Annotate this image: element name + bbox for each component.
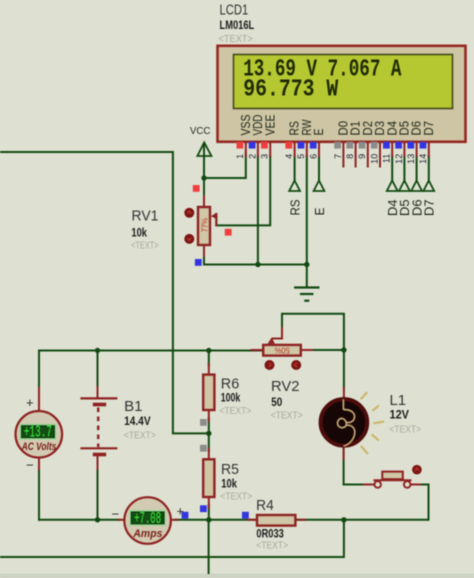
- pin 11 D4: [382, 121, 400, 163]
- svg-text:+13.7: +13.7: [24, 423, 52, 442]
- pin stub lamp bottom: [343, 446, 345, 459]
- wire pin4 RS to terminal: [294, 156, 296, 181]
- svg-text:E: E: [312, 207, 327, 215]
- svg-text:AC Volts: AC Volts: [21, 441, 56, 453]
- pin 10 D3: [369, 121, 387, 168]
- blue square R4 left node: [242, 512, 249, 519]
- wire pin14 D7 to terminal: [428, 156, 430, 181]
- wire VCC drop to RV1: [203, 144, 205, 208]
- pin 6 E: [308, 129, 326, 159]
- pin stub voltmeter bottom: [38, 458, 40, 470]
- pin stub voltmeter top: [38, 388, 40, 412]
- svg-text:Amps: Amps: [132, 528, 162, 540]
- RV2 potentiometer: [263, 338, 301, 371]
- svg-text:<TEXT>: <TEXT>: [389, 424, 421, 435]
- svg-text:L1: L1: [390, 393, 407, 409]
- pin stub R4 left: [248, 519, 257, 521]
- pin stub RV1 bottom: [203, 245, 205, 256]
- wire top rail voltmeter to RV2: [39, 350, 263, 352]
- pin 9 D2: [357, 121, 375, 168]
- node B1 bottom junction: [95, 517, 100, 522]
- wire pin1 VSS to VCC node: [204, 153, 246, 178]
- wire bottom row left: [39, 519, 120, 521]
- svg-text:<TEXT>: <TEXT>: [219, 406, 251, 417]
- node R5 bottom junction: [206, 517, 211, 522]
- svg-text:<TEXT>: <TEXT>: [131, 240, 159, 251]
- pin stub RV2 right: [301, 349, 312, 351]
- R6 resistor: [203, 375, 214, 410]
- svg-text:VEE: VEE: [263, 115, 277, 136]
- svg-text:RV2: RV2: [271, 379, 300, 395]
- wire R4 to junction: [295, 519, 344, 521]
- svg-text:50: 50: [271, 395, 282, 409]
- wire switch right: [418, 484, 429, 486]
- node VCC/pin1/RV1 junction: [201, 175, 206, 180]
- state squares: [182, 185, 249, 519]
- svg-text:D7: D7: [422, 200, 437, 217]
- gray square R5 top node: [200, 445, 207, 452]
- pin stub R6 top: [208, 364, 210, 375]
- node switch/bottom rail junction: [341, 517, 346, 522]
- pin 13 D6: [406, 121, 424, 164]
- node B1 top rail junction: [95, 348, 100, 353]
- ground: [294, 288, 320, 301]
- svg-text:LCD1: LCD1: [220, 3, 249, 19]
- wire pin2 VDD down: [257, 156, 259, 265]
- lamp light rays: [361, 392, 384, 454]
- pin stub B1 bottom: [97, 456, 99, 470]
- wire R5 top: [208, 433, 210, 451]
- pin stub R5 top: [208, 449, 210, 460]
- pin 7 D0: [333, 121, 351, 168]
- svg-text:13: 13: [406, 154, 416, 164]
- wire B1 bottom: [97, 468, 99, 520]
- node R6/R5 junction: [206, 431, 211, 436]
- svg-text:50%: 50%: [275, 345, 290, 354]
- wire voltmeter bottom: [38, 468, 40, 520]
- svg-text:5: 5: [296, 154, 306, 159]
- pin stub R4 right: [295, 519, 305, 521]
- svg-text:1: 1: [235, 154, 245, 159]
- pin stub R6 bottom: [208, 410, 210, 421]
- R4 resistor: [257, 515, 295, 526]
- pin 12 D5: [394, 121, 412, 164]
- RED PIN STUBS: [39, 196, 420, 520]
- pin 14 D7: [418, 121, 436, 164]
- svg-text:100k: 100k: [221, 391, 241, 405]
- blue square ammeter plus node: [182, 512, 189, 519]
- svg-text:B1: B1: [124, 399, 143, 415]
- red square RV1 top node: [193, 185, 200, 192]
- filament: [342, 399, 344, 410]
- svg-text:11: 11: [382, 154, 392, 163]
- pin stub RV1 wiper tail: [215, 214, 217, 225]
- wire R6 top: [208, 351, 210, 367]
- svg-text:96.773 W: 96.773 W: [243, 77, 339, 104]
- pin 8 D1: [345, 121, 363, 168]
- wire left rail to R6/R5 junction: [0, 152, 209, 433]
- svg-text:2: 2: [247, 154, 257, 159]
- terminal RS: [287, 181, 302, 216]
- svg-text:<TEXT>: <TEXT>: [271, 411, 303, 422]
- wire lamp top: [343, 350, 345, 390]
- pin 2 VDD: [247, 115, 265, 159]
- node RV2 right junction: [341, 347, 346, 352]
- svg-text:12: 12: [394, 154, 404, 164]
- pin stub switch right: [411, 484, 420, 486]
- wire RV1 bottom / ground rail: [204, 245, 307, 265]
- svg-text:10: 10: [369, 154, 379, 164]
- wire amps to R4: [175, 519, 257, 521]
- pin stub ammeter right: [171, 519, 178, 521]
- blue square R5 bottom node: [200, 505, 207, 512]
- pin stub ammeter left: [119, 519, 126, 521]
- wire pin3 VEE to RV1 wiper: [216, 156, 270, 225]
- wire RV2 wiper loop: [282, 314, 344, 350]
- R5 resistor: [203, 459, 214, 497]
- svg-text:3: 3: [260, 154, 270, 159]
- wire pin6 E to terminal: [318, 156, 320, 181]
- ammeter Amps: [124, 497, 171, 544]
- switch (push button): [374, 465, 422, 488]
- wire lamp bottom to switch: [344, 446, 366, 485]
- svg-text:+7.08: +7.08: [134, 509, 161, 528]
- pin stub lamp top: [343, 388, 345, 399]
- VCC power symbol: [197, 142, 211, 156]
- svg-text:8: 8: [345, 154, 355, 159]
- wire B1 top: [97, 351, 99, 391]
- node pin5 ground rail junction: [304, 262, 309, 267]
- LCD1 screen: [234, 55, 453, 109]
- terminal D7: [422, 181, 437, 217]
- wire R5 column off bottom: [208, 520, 210, 573]
- terminal E: [312, 181, 327, 216]
- RV1 potentiometer: [184, 207, 216, 245]
- pin 5 RW: [296, 119, 314, 158]
- wire switch loop: [344, 485, 429, 520]
- svg-text:9: 9: [357, 154, 367, 159]
- svg-text:6: 6: [308, 154, 318, 159]
- wire R5 bottom: [208, 505, 210, 520]
- terminal D4: [385, 181, 400, 217]
- pin stub RV2 left: [252, 349, 264, 351]
- pin stub RV1 top: [203, 196, 205, 207]
- pin 1 VSS: [235, 115, 253, 159]
- svg-text:+: +: [26, 395, 34, 410]
- node R6 top rail junction: [206, 348, 211, 353]
- wire pin5 RW down to ground: [306, 156, 308, 288]
- svg-text:VCC: VCC: [190, 126, 211, 137]
- bottom window band: [0, 574, 474, 578]
- pin 3 VEE: [260, 115, 278, 159]
- svg-text:LM016L: LM016L: [220, 18, 255, 32]
- svg-text:<TEXT>: <TEXT>: [256, 541, 288, 552]
- svg-text:<TEXT>: <TEXT>: [124, 431, 156, 442]
- B1 battery: [80, 398, 117, 454]
- pin stub B1 top: [97, 387, 99, 398]
- pin 4 RS: [284, 121, 302, 159]
- svg-text:<TEXT>: <TEXT>: [220, 491, 252, 502]
- node pin2 ground rail junction: [255, 262, 260, 267]
- wire bottom rail: [0, 520, 344, 557]
- svg-text:14: 14: [418, 154, 428, 164]
- svg-text:−: −: [112, 506, 120, 521]
- voltmeter AC Volts: [16, 411, 63, 458]
- svg-text:RS: RS: [287, 199, 302, 215]
- wire pin13 D6 to terminal: [416, 156, 418, 181]
- L1 lamp: [321, 392, 385, 454]
- svg-text:E: E: [312, 129, 326, 136]
- svg-text:−: −: [26, 457, 34, 472]
- wire RV2 right to lamp column: [301, 349, 344, 351]
- pin stub switch left: [364, 484, 374, 486]
- svg-text:12V: 12V: [390, 408, 410, 422]
- svg-text:D7: D7: [422, 121, 436, 136]
- svg-text:10k: 10k: [221, 477, 237, 491]
- terminal D5: [397, 181, 412, 217]
- wire voltmeter top: [38, 351, 40, 393]
- wire R6 bottom: [208, 418, 210, 433]
- gray square R6 bottom node: [200, 419, 207, 426]
- svg-text:10k: 10k: [131, 226, 147, 240]
- terminal D6: [409, 181, 424, 217]
- svg-text:<TEXT>: <TEXT>: [219, 34, 254, 45]
- LCD1 body: [218, 46, 466, 142]
- svg-text:4: 4: [284, 154, 294, 159]
- svg-text:77%: 77%: [200, 218, 209, 233]
- svg-text:14.4V: 14.4V: [124, 414, 151, 428]
- svg-text:7: 7: [333, 154, 343, 159]
- wire pin11 D4 to terminal: [391, 156, 393, 181]
- svg-text:RV1: RV1: [132, 208, 159, 224]
- pin stub RV2 wiper: [273, 328, 283, 339]
- blue square RV1 bottom node: [195, 259, 202, 266]
- pin stub R5 bottom: [208, 497, 210, 508]
- red square RV1 wiper node: [225, 229, 232, 236]
- LCD pins group: [235, 115, 436, 168]
- svg-text:0R033: 0R033: [256, 527, 284, 541]
- wire pin12 D5 to terminal: [403, 156, 405, 181]
- svg-text:R4: R4: [256, 498, 274, 514]
